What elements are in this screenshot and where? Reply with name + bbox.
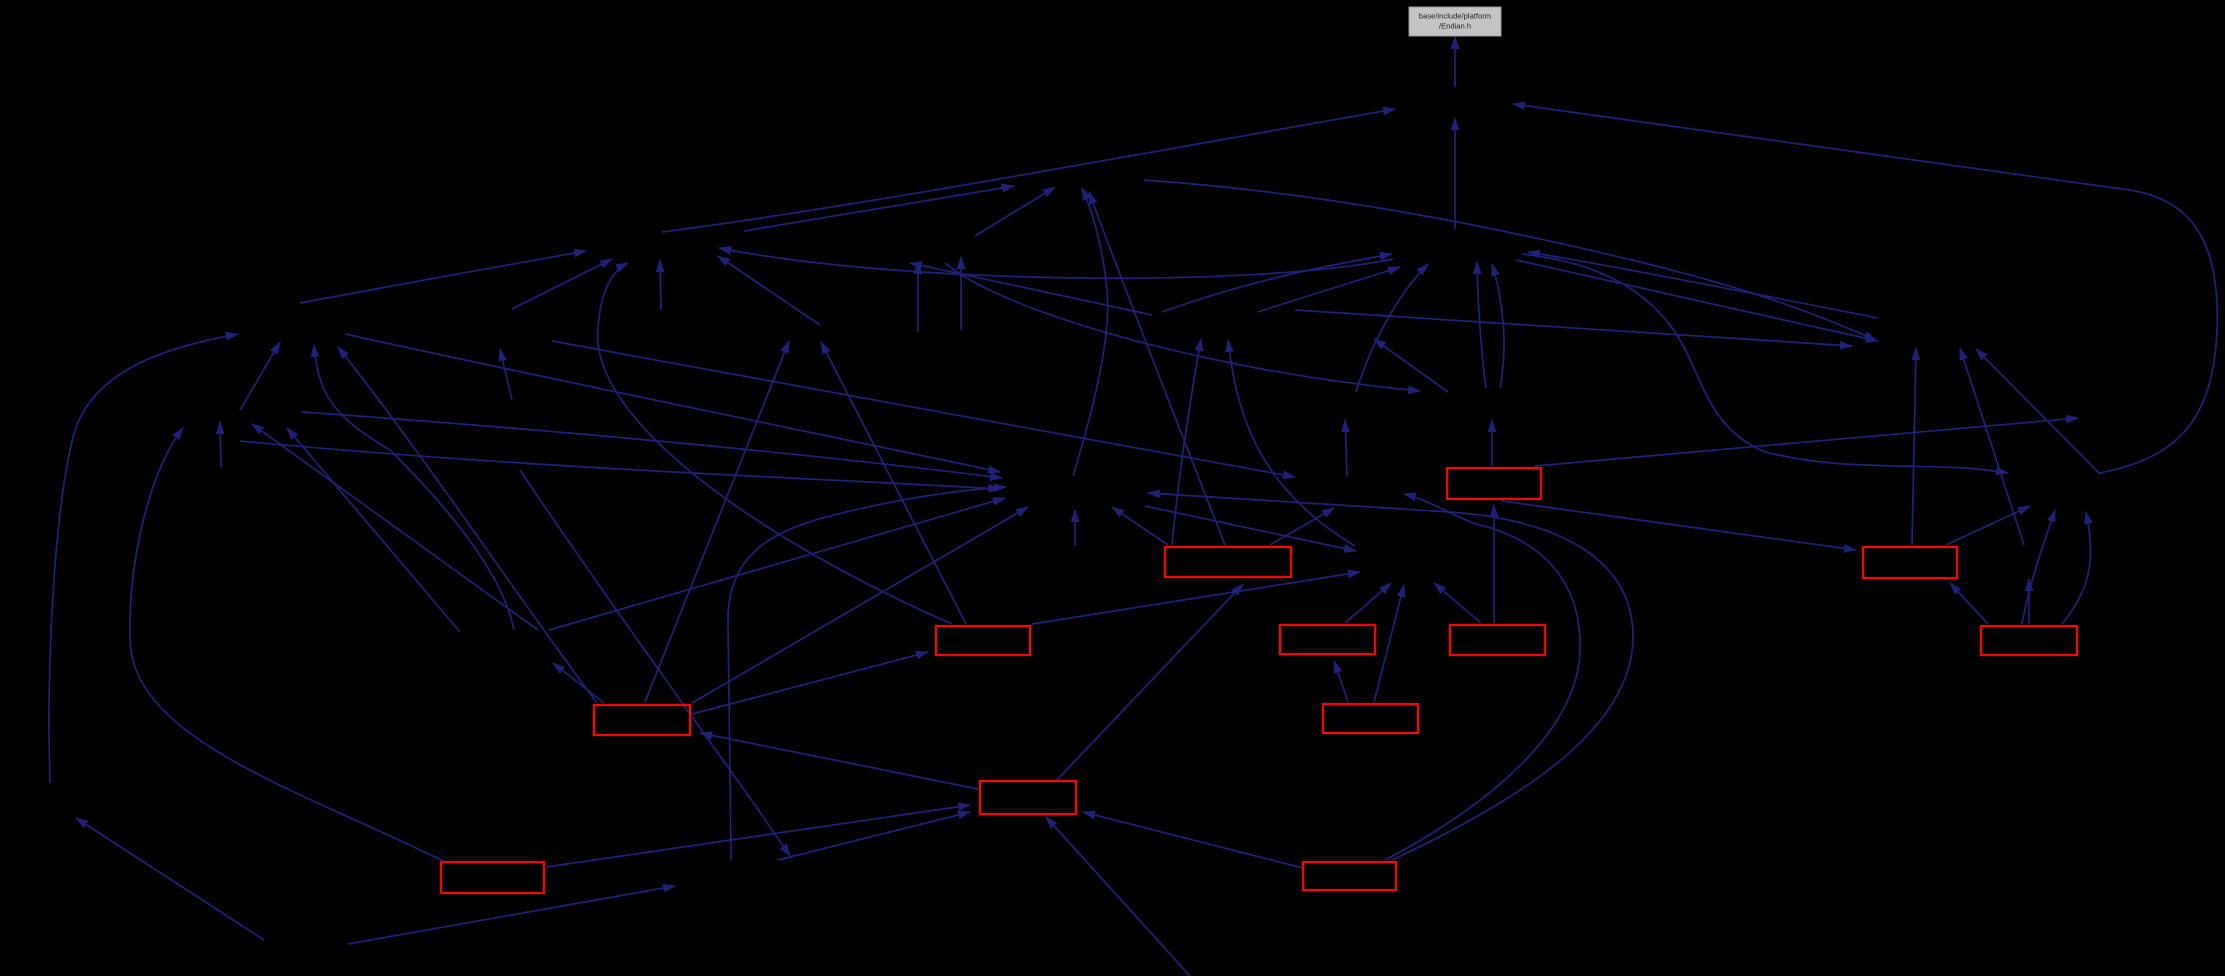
edge H to D xyxy=(910,263,1152,315)
edge L to E2 xyxy=(1492,264,1504,388)
edge Rh to B xyxy=(1089,192,1225,545)
edge stub to D xyxy=(917,262,919,332)
edge X to F wiggle xyxy=(314,345,514,630)
red box 2 xyxy=(1165,547,1291,577)
edge W to C xyxy=(512,259,612,309)
red box 8 xyxy=(1323,704,1418,733)
edge L to E xyxy=(1477,262,1486,388)
edge X to N xyxy=(549,498,1005,630)
edge Y to N xyxy=(1074,510,1076,546)
edge E to O xyxy=(1522,254,2008,473)
edge vertical stub to C xyxy=(660,260,661,310)
edge L to H xyxy=(1374,339,1448,392)
edge N to B xyxy=(1073,188,1108,476)
edge J to F xyxy=(240,342,280,410)
edge Ri to N loop xyxy=(1148,493,1633,860)
edge Rl to P xyxy=(1374,585,1404,702)
edge J2 to N xyxy=(240,441,1000,489)
edge Rl to Rj xyxy=(1334,661,1348,702)
edge U to N xyxy=(728,487,1006,860)
edge U to Rf xyxy=(778,812,970,860)
edge Rc to X xyxy=(553,663,604,703)
edge V to K xyxy=(1345,420,1347,476)
edge K to E xyxy=(1356,264,1428,392)
edge Ri to Rf xyxy=(1083,812,1303,868)
edge Rc to Re xyxy=(692,652,928,714)
red box 12 xyxy=(1303,862,1396,890)
edge stub to D2 xyxy=(960,257,962,330)
edge R1 to L xyxy=(1491,420,1493,466)
edge G to C xyxy=(718,256,820,325)
edge Rb to O xyxy=(2022,510,2055,624)
edge Re to P xyxy=(1032,572,1360,624)
edge H to I xyxy=(1295,310,1852,346)
edge Rb to O curve xyxy=(2062,512,2091,624)
edge Rd to J xyxy=(130,428,443,861)
red box 3 xyxy=(1863,547,1957,578)
edge F to N xyxy=(345,334,1000,472)
edge X to J xyxy=(252,424,538,630)
edge T to U xyxy=(348,886,675,944)
edge N to P xyxy=(1145,506,1356,551)
edge Rh to V xyxy=(1270,508,1334,545)
edge A to Endian.h xyxy=(1454,37,1456,87)
edge Rb to Ra xyxy=(1950,583,1988,624)
edge X to J2 xyxy=(287,428,460,632)
edge T to S xyxy=(76,818,264,940)
edge H to E2 xyxy=(1258,267,1400,312)
red box 4 xyxy=(936,626,1030,655)
edge Rf to Rh xyxy=(1056,584,1243,781)
edge Re to G xyxy=(821,342,966,624)
red box 9 xyxy=(594,705,690,735)
edge Re to C xyxy=(598,263,952,624)
edge Rc to F xyxy=(338,347,597,703)
edge O to A big right loop xyxy=(1513,104,2217,473)
svg-text:/Endian.h: /Endian.h xyxy=(1439,22,1471,31)
edge H to E xyxy=(1162,254,1392,312)
red box 10 xyxy=(980,781,1076,814)
edge I to E xyxy=(1528,252,1878,318)
edge Rk to R1 xyxy=(1493,505,1495,623)
edge Rf to Rc xyxy=(700,733,978,789)
red box 6 xyxy=(1450,625,1545,655)
edge O to I xyxy=(1976,349,2100,474)
edge Rd to Rf xyxy=(546,805,970,867)
edge E to C xyxy=(719,248,1393,278)
edge D to K xyxy=(945,263,1420,391)
edge stub to W xyxy=(500,349,512,400)
edge Rj to P xyxy=(1345,583,1391,623)
edge F to C xyxy=(300,251,586,303)
edge Rc to N xyxy=(692,507,1028,703)
red box 5 xyxy=(1280,625,1375,654)
edge R1 to Ra xyxy=(1502,501,1856,550)
red box 11 xyxy=(441,862,544,893)
red box 7 xyxy=(1981,626,2077,655)
edge E to A xyxy=(1454,118,1456,229)
edge D to B xyxy=(975,187,1055,236)
edge J to N xyxy=(302,412,1002,478)
edge Ra to O xyxy=(1946,506,2030,545)
edge R1 to M xyxy=(1535,418,2078,466)
edge Rk to P xyxy=(1434,583,1481,623)
edge Rh to H xyxy=(1172,339,1201,545)
edge S to F xyxy=(49,334,238,783)
edge Q2 to I xyxy=(1960,348,2024,545)
edge Ri to V loop xyxy=(1385,494,1580,860)
edge C to A xyxy=(662,109,1395,232)
edge Rh to N xyxy=(1112,507,1168,545)
edge anon to Rf xyxy=(1046,817,1190,976)
edge P to H xyxy=(1228,340,1355,546)
edge E to I xyxy=(1516,260,1878,341)
edge C to B xyxy=(744,186,1014,231)
edge B to I xyxy=(1144,180,1876,340)
red box 1 xyxy=(1447,468,1541,499)
edge anon to U steep xyxy=(520,470,790,856)
edge Rb to Q2 xyxy=(2028,579,2030,624)
edge W to V xyxy=(552,341,1295,477)
edge Ra to I xyxy=(1912,348,1916,545)
svg-text:base/include/platform: base/include/platform xyxy=(1419,12,1491,21)
node base/include/platform/Endian.h xyxy=(1409,7,1501,36)
edge stub to J xyxy=(220,422,221,467)
edge Rc to G xyxy=(645,341,789,702)
